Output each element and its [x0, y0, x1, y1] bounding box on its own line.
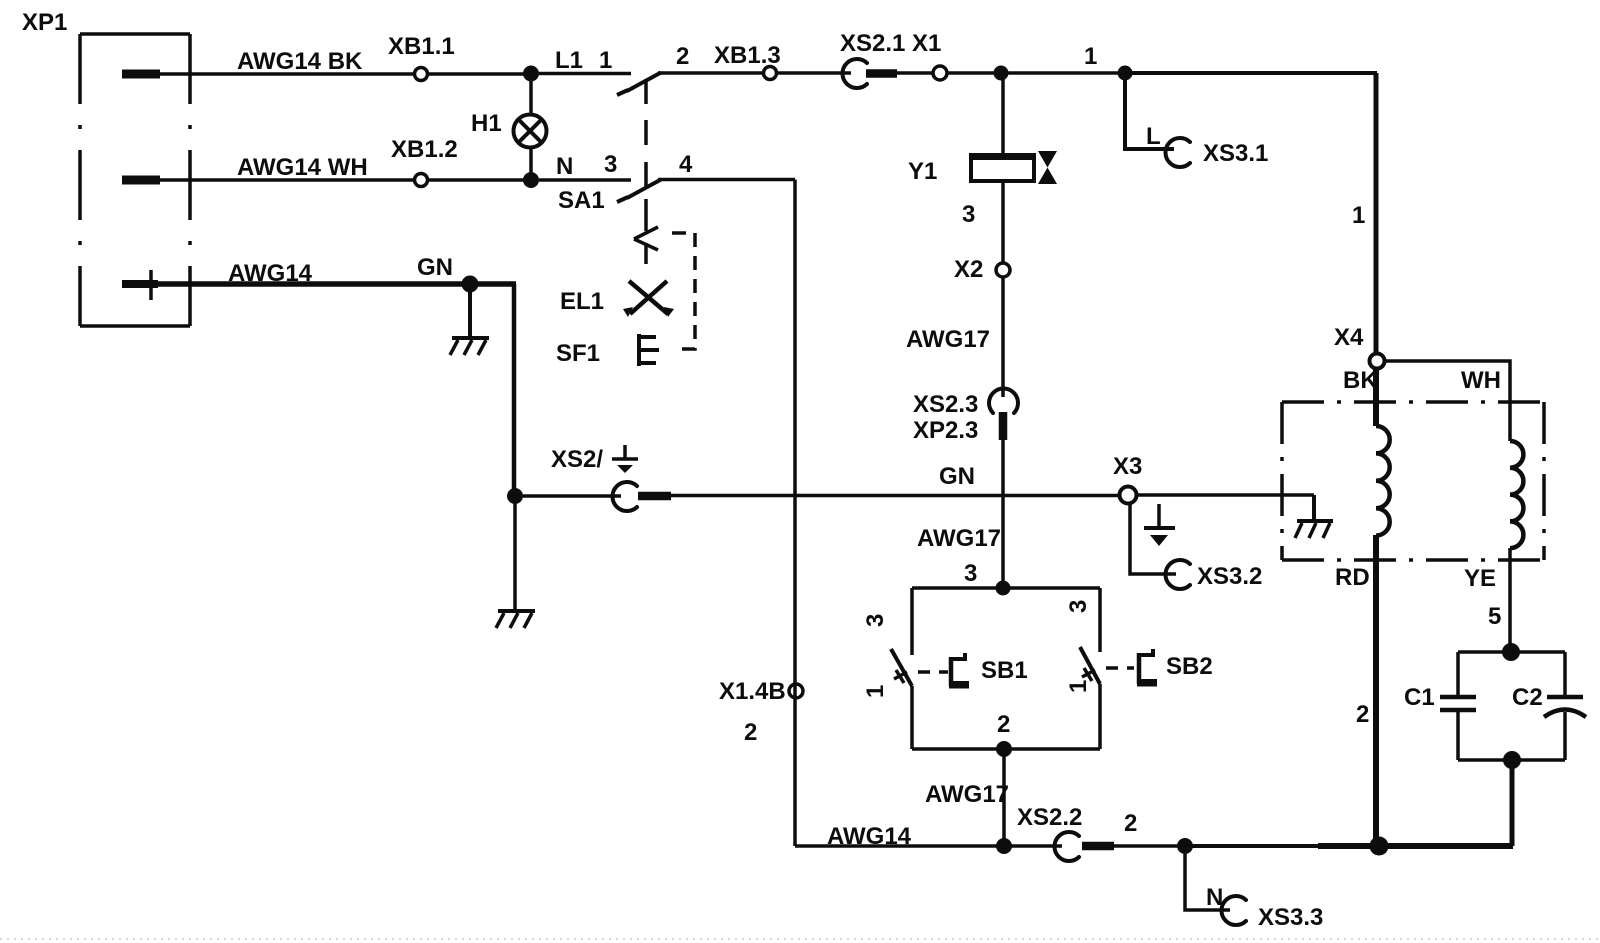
connector XP1 dashed outline — [80, 34, 190, 326]
svg-text:XS2.2: XS2.2 — [1017, 804, 1082, 831]
motor chassis ground — [1295, 495, 1333, 538]
svg-text:AWG14 WH: AWG14 WH — [237, 154, 368, 181]
svg-text:EL1: EL1 — [560, 288, 604, 315]
capacitor box bottom wire — [1458, 758, 1565, 762]
wire BK winding down thick (wire 2) — [1373, 535, 1379, 846]
switch SA1 pole 1-2 blade — [627, 73, 661, 92]
svg-text:X1.4B: X1.4B — [719, 678, 786, 705]
EL1/SF1 linkage dashed bracket — [672, 233, 695, 349]
wire N node to XS3.3 — [1185, 854, 1230, 910]
svg-text:4: 4 — [679, 151, 693, 178]
SB box top edge — [912, 586, 1100, 590]
svg-text:XS3.3: XS3.3 — [1258, 904, 1323, 931]
wire X3 branch down — [1130, 503, 1176, 574]
svg-text:C1: C1 — [1404, 684, 1435, 711]
solenoid Y1 coil box — [971, 155, 1034, 181]
wire XB1.2 to node N — [427, 178, 525, 182]
svg-text:C2: C2 — [1512, 684, 1543, 711]
lamp H1 feed wire lower — [529, 147, 533, 174]
wire YE winding to cap node — [1508, 548, 1512, 652]
wire N to SA1 contact 3 — [539, 178, 631, 182]
wire XS2 node down to ground — [513, 496, 517, 611]
connector XP2.3 pin bar — [999, 412, 1008, 440]
capacitor C1 branch upper — [1456, 652, 1460, 695]
svg-text:2: 2 — [744, 719, 757, 746]
wire Y1 to X2 — [1001, 181, 1005, 263]
SB1 actuator dashes — [918, 670, 948, 674]
splice XB1.3 — [764, 67, 777, 80]
junction dot XS2 node — [507, 488, 523, 504]
svg-text:XB1.1: XB1.1 — [388, 33, 455, 60]
SB box left edge upper (SB1 contact 3) — [910, 588, 914, 655]
svg-text:XS3.2: XS3.2 — [1197, 563, 1262, 590]
svg-text:X4: X4 — [1334, 324, 1364, 351]
splice X3 — [1120, 487, 1137, 504]
wire X4 to BK winding — [1373, 368, 1379, 426]
svg-text:2: 2 — [676, 43, 689, 70]
svg-text:Y1: Y1 — [908, 158, 937, 185]
wire X3 to motor chassis — [1137, 493, 1314, 497]
wire L1 to SA1 contact 1 — [539, 72, 631, 76]
svg-text:XB1.2: XB1.2 — [391, 136, 458, 163]
svg-text:RD: RD — [1335, 564, 1370, 591]
XP1 pin 1 bar — [122, 70, 160, 79]
solenoid valve branch wire from node1 — [1001, 73, 1005, 155]
junction dot bottom rail at SB drop — [996, 838, 1012, 854]
svg-text:AWG17: AWG17 — [917, 525, 1001, 552]
svg-text:2: 2 — [1356, 701, 1369, 728]
connector XS3.3 socket — [1222, 896, 1246, 925]
XP1 pin 3 bar — [122, 280, 158, 288]
svg-text:H1: H1 — [471, 110, 502, 137]
svg-text:SB2: SB2 — [1166, 653, 1213, 680]
junction dot cap bottom — [1503, 751, 1521, 769]
igniter EL1 — [623, 281, 674, 317]
wire SB box to bottom rail — [1002, 749, 1006, 846]
XP1 pin 3 cross tick — [149, 270, 153, 300]
capacitor C1 — [1440, 697, 1476, 710]
connector XS2 pin bar — [638, 492, 671, 501]
wire XS2 node to XS2 connector — [523, 494, 621, 498]
junction dot GN ground stub — [462, 276, 479, 293]
ground chassis lower — [496, 611, 535, 628]
motor aux winding WH-YE — [1510, 441, 1523, 548]
junction dot SB box bottom — [996, 741, 1012, 757]
svg-text:L: L — [1146, 123, 1161, 150]
svg-text:3: 3 — [862, 614, 889, 627]
node N junction dot — [523, 172, 539, 188]
earth symbol near XS3.2 — [1144, 504, 1175, 546]
wire GN to X3 — [671, 494, 1120, 498]
svg-text:XS3.1: XS3.1 — [1203, 140, 1268, 167]
svg-text:2: 2 — [1124, 810, 1137, 837]
svg-text:3: 3 — [964, 560, 977, 587]
svg-text:X1: X1 — [912, 30, 941, 57]
svg-text:SF1: SF1 — [556, 340, 600, 367]
wire XB1.1 to node L1 — [427, 72, 525, 76]
svg-text:SB1: SB1 — [981, 657, 1028, 684]
connector XS2.3/XP2.3 socket — [989, 389, 1018, 414]
svg-text:5: 5 — [1488, 603, 1501, 630]
bottom rail left thin — [795, 844, 1062, 848]
svg-text:WH: WH — [1461, 367, 1501, 394]
splice XB1.2 — [415, 174, 428, 187]
junction dot Y1 branch — [994, 66, 1009, 81]
wire stub to chassis ground — [468, 284, 472, 338]
splice X2 — [996, 263, 1010, 277]
switch SA1 pole 3-4 blade — [627, 180, 661, 199]
wire vertical drop from contact 4 — [793, 180, 797, 847]
connector XS3.2 socket — [1165, 560, 1190, 589]
svg-text:XP1: XP1 — [22, 9, 67, 36]
capacitor C2 branch upper — [1563, 652, 1567, 695]
wire SA1 contact 4 to right drop — [658, 178, 795, 182]
bottom rail mid — [1190, 844, 1318, 848]
svg-text:YE: YE — [1464, 565, 1496, 592]
XP1 pin 2 bar — [122, 176, 160, 185]
splice X1 — [933, 66, 947, 80]
connector XS2.2 pin bar — [1082, 842, 1114, 851]
motor M1 dashed enclosure — [1282, 402, 1544, 560]
svg-text:SA1: SA1 — [558, 187, 605, 214]
svg-text:N: N — [556, 153, 573, 180]
SB box bottom edge — [912, 747, 1100, 751]
ground chassis upper — [450, 338, 489, 355]
node L1 junction dot — [523, 66, 539, 82]
junction dot SB box top — [996, 581, 1011, 596]
svg-text:1: 1 — [862, 685, 889, 698]
connector XS2 socket — [613, 482, 638, 511]
junction dot N node — [1177, 838, 1193, 854]
lamp H1 — [514, 115, 547, 148]
wire node1 to top right corner — [1125, 71, 1377, 75]
connector XS3.1 socket — [1166, 138, 1191, 167]
svg-text:1: 1 — [1065, 680, 1092, 693]
wire XP2.3 down to SB box — [1001, 440, 1005, 588]
scan artifact dotted line bottom — [0, 938, 1600, 940]
wire cap bottom to rail — [1510, 760, 1515, 846]
SB box right edge upper (SB2 contact 3) — [1098, 588, 1102, 652]
junction blob motor drop — [1370, 837, 1389, 856]
svg-text:XP2.3: XP2.3 — [913, 417, 978, 444]
SB1 actuator bracket — [949, 653, 969, 689]
svg-text:AWG17: AWG17 — [906, 326, 990, 353]
SA1 mechanical linkage dashed — [644, 79, 648, 231]
bottom rail thick to cap drop — [1379, 843, 1513, 849]
wire SA1 contact 2 to XB1.3 — [658, 71, 764, 75]
capacitor C2 polarized — [1544, 697, 1586, 717]
svg-text:GN: GN — [939, 463, 975, 490]
connector XS2.1 socket — [842, 59, 867, 88]
lamp H1 feed wire upper — [529, 80, 533, 116]
capacitor C2 branch lower — [1563, 712, 1567, 760]
wire XS2.1 to X1 — [897, 71, 934, 75]
motor main winding BK-RD — [1376, 426, 1390, 536]
SB box left edge lower (SB1 contact 1) — [910, 686, 914, 749]
wire XS2.2 to N node — [1114, 844, 1190, 848]
splice X4 — [1370, 354, 1385, 369]
capacitor C1 branch lower — [1456, 710, 1460, 760]
bottom rail thick to motor drop — [1318, 843, 1379, 849]
wire X4 to WH winding — [1384, 361, 1510, 441]
connector XS2.2 socket — [1055, 832, 1079, 861]
svg-text:2: 2 — [997, 711, 1010, 738]
wire XB1.3 to XS2.1 — [776, 71, 851, 75]
wire AWG14 BK from XP1.1 to XB1.1 — [158, 72, 415, 76]
pushbutton SB1 blade — [891, 649, 912, 686]
SB2 actuator bracket — [1137, 649, 1157, 687]
splice X1.4B — [789, 684, 803, 698]
wire X2 to XS2.3 — [1001, 277, 1005, 397]
svg-text:XS2.1: XS2.1 — [840, 30, 905, 57]
svg-text:GN: GN — [417, 254, 453, 281]
splice XB1.1 — [415, 68, 428, 81]
earth symbol in XS2 label — [612, 445, 638, 473]
linkage arrow — [634, 227, 658, 264]
junction dot XS3.1 branch — [1118, 66, 1133, 81]
wire GN vertical drop thick — [512, 284, 517, 496]
svg-text:L1: L1 — [555, 47, 583, 74]
svg-text:X3: X3 — [1113, 453, 1142, 480]
wire AWG14 WH from XP1.2 to XB1.2 — [158, 178, 415, 182]
svg-text:AWG14: AWG14 — [228, 260, 313, 287]
junction dot cap top — [1502, 643, 1520, 661]
sensor SF1 electrode — [639, 334, 659, 366]
svg-text:3: 3 — [1065, 600, 1092, 613]
svg-text:X2: X2 — [954, 256, 983, 283]
connector XS2.1 pin bar — [866, 69, 897, 78]
svg-text:3: 3 — [604, 151, 617, 178]
valve symbol of Y1 — [1038, 151, 1057, 184]
svg-text:AWG17: AWG17 — [925, 781, 1009, 808]
svg-text:1: 1 — [599, 47, 612, 74]
svg-text:3: 3 — [962, 201, 975, 228]
wire AWG14 GN thick — [156, 281, 516, 287]
pushbutton SB2 blade — [1080, 647, 1100, 684]
wire right vertical to X4 — [1374, 73, 1379, 354]
capacitor box top wire — [1458, 650, 1565, 654]
svg-text:AWG14 BK: AWG14 BK — [237, 48, 363, 75]
svg-text:1: 1 — [1084, 43, 1097, 70]
wire L branch from node1 to XS3.1 — [1125, 73, 1174, 149]
svg-text:XS2/: XS2/ — [551, 446, 603, 473]
SB box right edge lower (SB2 contact 1) — [1098, 684, 1102, 749]
svg-text:1: 1 — [1352, 202, 1365, 229]
wire X1 to node 1 — [946, 71, 1125, 75]
SB2 actuator dashes — [1106, 666, 1134, 670]
svg-text:XS2.3: XS2.3 — [913, 391, 978, 418]
